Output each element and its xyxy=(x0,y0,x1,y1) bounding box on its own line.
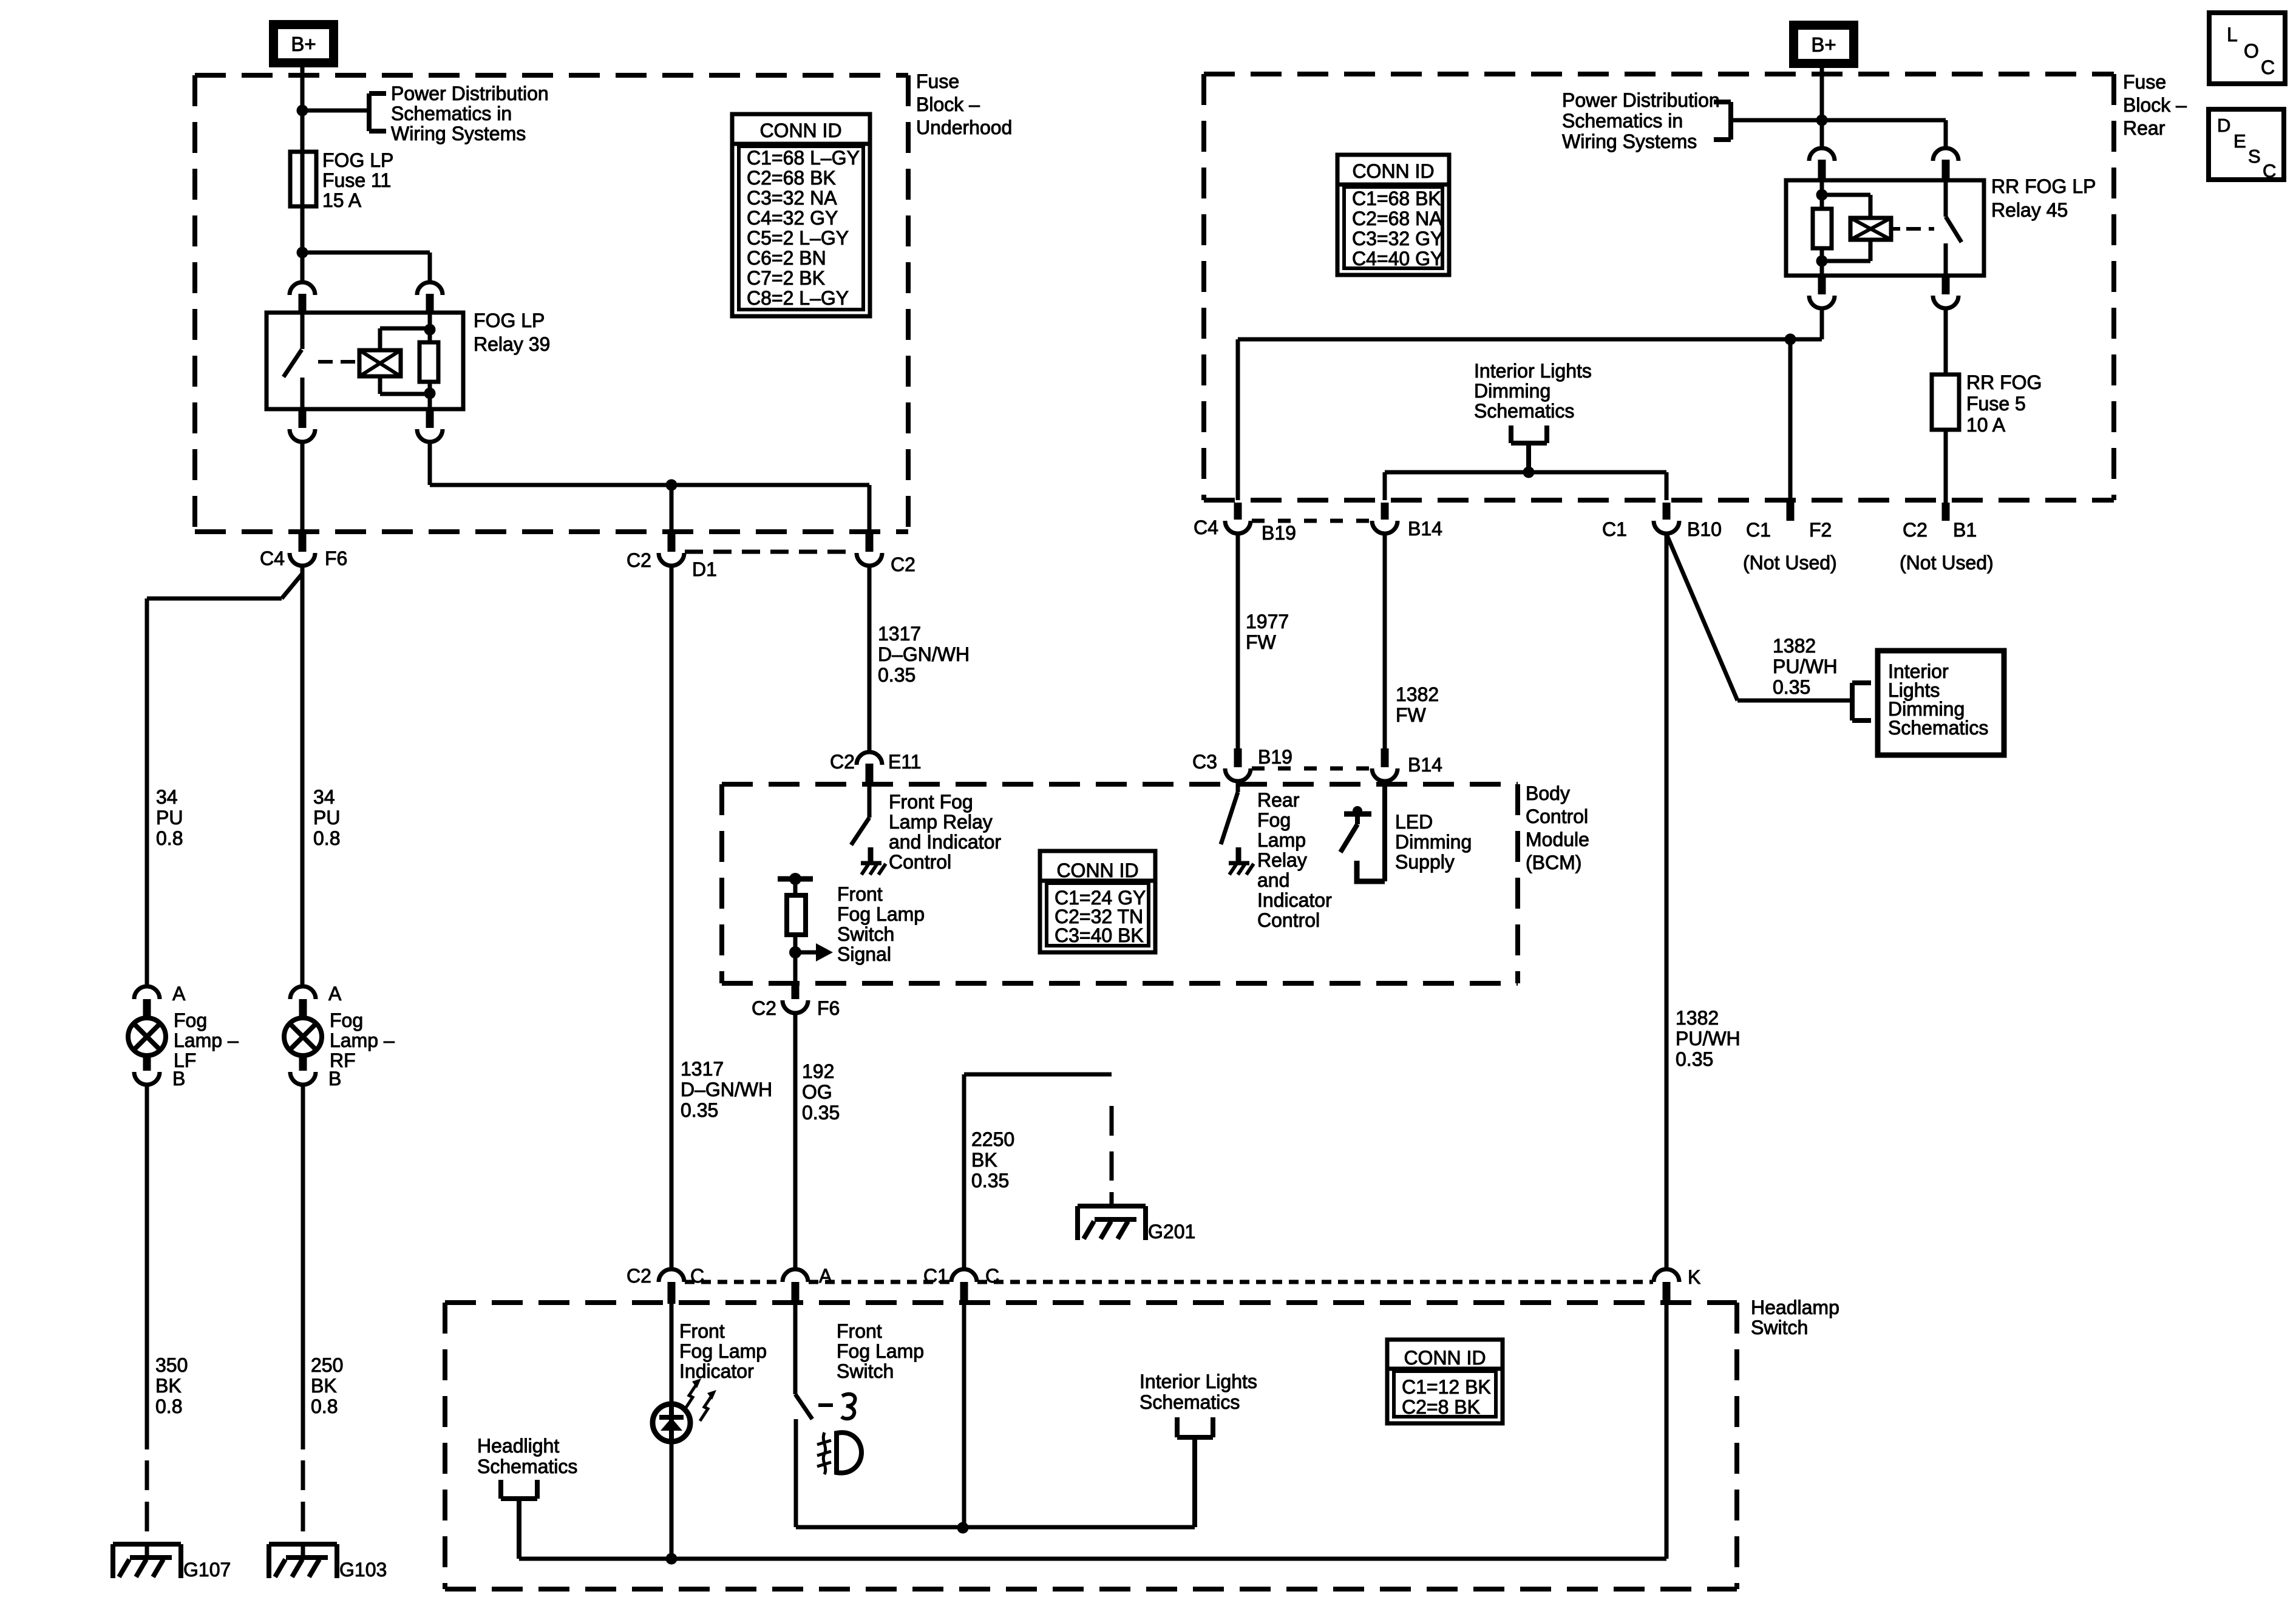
svg-text:C1=68 L–GY: C1=68 L–GY xyxy=(747,147,860,169)
svg-text:B19: B19 xyxy=(1262,522,1296,544)
svg-text:BK: BK xyxy=(971,1149,997,1171)
svg-text:C4: C4 xyxy=(1194,517,1218,538)
svg-text:Block –: Block – xyxy=(2123,94,2187,116)
svg-text:0.8: 0.8 xyxy=(156,827,183,849)
svg-text:(Not Used): (Not Used) xyxy=(1900,552,1994,574)
svg-text:FW: FW xyxy=(1396,704,1427,726)
svg-text:C3=32 NA: C3=32 NA xyxy=(747,187,837,209)
svg-text:Fog Lamp: Fog Lamp xyxy=(679,1340,767,1362)
svg-text:Front Fog: Front Fog xyxy=(889,791,973,813)
svg-text:Schematics: Schematics xyxy=(477,1456,577,1477)
svg-text:Interior Lights: Interior Lights xyxy=(1474,360,1592,382)
svg-text:Fog: Fog xyxy=(174,1009,207,1031)
svg-text:LF: LF xyxy=(174,1049,196,1071)
svg-text:Interior Lights: Interior Lights xyxy=(1140,1371,1257,1392)
svg-text:and: and xyxy=(1257,869,1289,891)
svg-text:CONN ID: CONN ID xyxy=(759,120,841,141)
svg-text:Relay 45: Relay 45 xyxy=(1991,199,2068,221)
svg-text:G201: G201 xyxy=(1148,1221,1195,1242)
svg-text:G103: G103 xyxy=(339,1559,387,1581)
svg-text:Switch: Switch xyxy=(1751,1317,1808,1338)
svg-text:10 A: 10 A xyxy=(1966,414,2006,436)
svg-text:192: 192 xyxy=(802,1060,834,1082)
svg-text:C1: C1 xyxy=(1602,518,1627,540)
svg-text:Schematics in: Schematics in xyxy=(391,103,512,124)
svg-text:C1=12 BK: C1=12 BK xyxy=(1402,1376,1491,1398)
svg-text:C2: C2 xyxy=(1903,519,1927,541)
svg-text:F2: F2 xyxy=(1809,519,1832,541)
svg-text:CONN ID: CONN ID xyxy=(1056,859,1138,881)
svg-text:15 A: 15 A xyxy=(322,189,362,211)
svg-text:C2=68 NA: C2=68 NA xyxy=(1352,208,1442,229)
svg-text:B10: B10 xyxy=(1687,518,1722,540)
svg-text:Fog Lamp: Fog Lamp xyxy=(837,903,925,925)
svg-text:C2: C2 xyxy=(627,549,651,571)
svg-text:Headlamp: Headlamp xyxy=(1751,1297,1839,1318)
svg-text:Signal: Signal xyxy=(837,943,891,965)
svg-text:B+: B+ xyxy=(291,33,316,55)
svg-text:A: A xyxy=(328,983,342,1005)
svg-text:1977: 1977 xyxy=(1246,611,1289,632)
svg-text:F6: F6 xyxy=(325,547,347,569)
svg-text:RR FOG: RR FOG xyxy=(1966,371,2042,393)
svg-text:F6: F6 xyxy=(817,997,840,1019)
svg-text:B14: B14 xyxy=(1408,754,1442,776)
svg-text:D–GN/WH: D–GN/WH xyxy=(681,1079,772,1100)
svg-text:L: L xyxy=(2227,24,2238,46)
svg-text:CONN ID: CONN ID xyxy=(1352,160,1434,182)
svg-text:350: 350 xyxy=(155,1354,188,1376)
svg-text:Headlight: Headlight xyxy=(477,1435,559,1457)
svg-text:PU: PU xyxy=(313,807,340,829)
svg-text:C: C xyxy=(2261,56,2275,78)
svg-text:Fog: Fog xyxy=(330,1009,363,1031)
svg-text:C3: C3 xyxy=(1192,751,1217,773)
svg-text:Module: Module xyxy=(1526,829,1589,850)
svg-text:Wiring Systems: Wiring Systems xyxy=(1562,131,1697,152)
svg-text:Body: Body xyxy=(1526,782,1570,804)
svg-text:LED: LED xyxy=(1395,811,1433,833)
svg-text:0.35: 0.35 xyxy=(971,1170,1009,1192)
svg-text:FOG LP: FOG LP xyxy=(322,149,393,171)
svg-text:D: D xyxy=(2217,115,2230,136)
svg-text:0.8: 0.8 xyxy=(155,1395,182,1417)
svg-text:FW: FW xyxy=(1246,631,1277,653)
svg-text:Power Distribution: Power Distribution xyxy=(1562,89,1720,111)
svg-text:B+: B+ xyxy=(1811,33,1836,56)
svg-text:1382: 1382 xyxy=(1773,635,1816,657)
svg-text:Fuse 11: Fuse 11 xyxy=(322,169,391,191)
svg-text:OG: OG xyxy=(802,1081,832,1103)
svg-text:O: O xyxy=(2244,40,2259,62)
svg-text:and Indicator: and Indicator xyxy=(889,831,1001,853)
svg-text:G107: G107 xyxy=(183,1559,231,1581)
svg-text:Fuse: Fuse xyxy=(916,70,959,92)
svg-text:Supply: Supply xyxy=(1395,851,1455,873)
svg-text:C2: C2 xyxy=(627,1265,651,1287)
svg-text:0.35: 0.35 xyxy=(1676,1048,1713,1070)
svg-text:C6=2 BN: C6=2 BN xyxy=(747,247,826,269)
svg-text:BK: BK xyxy=(311,1375,337,1397)
svg-text:Schematics: Schematics xyxy=(1140,1391,1240,1413)
svg-text:0.8: 0.8 xyxy=(313,827,340,849)
svg-text:E: E xyxy=(2233,131,2246,152)
svg-text:RR FOG LP: RR FOG LP xyxy=(1991,175,2096,197)
svg-text:B14: B14 xyxy=(1408,518,1442,540)
svg-text:1317: 1317 xyxy=(681,1058,724,1080)
svg-text:C1: C1 xyxy=(1746,519,1771,541)
svg-text:Dimming: Dimming xyxy=(1474,380,1550,402)
svg-text:Control: Control xyxy=(1526,805,1588,827)
svg-text:C: C xyxy=(2263,160,2276,181)
svg-text:C5=2 L–GY: C5=2 L–GY xyxy=(747,227,849,249)
svg-text:Underhood: Underhood xyxy=(916,117,1012,138)
svg-text:C2: C2 xyxy=(830,751,855,773)
svg-text:FOG LP: FOG LP xyxy=(474,310,545,331)
svg-text:0.35: 0.35 xyxy=(681,1099,718,1121)
svg-text:Fuse 5: Fuse 5 xyxy=(1966,393,2026,415)
svg-text:Schematics: Schematics xyxy=(1888,717,1988,739)
svg-text:PU/WH: PU/WH xyxy=(1773,656,1838,677)
svg-text:PU: PU xyxy=(156,807,183,829)
svg-text:Front: Front xyxy=(837,883,883,905)
svg-text:0.8: 0.8 xyxy=(311,1395,338,1417)
svg-text:Indicator: Indicator xyxy=(679,1360,754,1382)
svg-text:Relay 39: Relay 39 xyxy=(474,333,550,355)
svg-text:B1: B1 xyxy=(1953,519,1977,541)
svg-text:Control: Control xyxy=(889,851,951,873)
svg-text:K: K xyxy=(1688,1266,1700,1288)
svg-text:CONN ID: CONN ID xyxy=(1404,1347,1486,1369)
svg-text:C2: C2 xyxy=(752,997,776,1019)
svg-text:C2: C2 xyxy=(891,554,915,575)
svg-text:0.35: 0.35 xyxy=(802,1102,840,1124)
svg-text:1382: 1382 xyxy=(1396,683,1439,705)
svg-text:Lamp Relay: Lamp Relay xyxy=(889,811,993,833)
svg-text:Rear: Rear xyxy=(2123,117,2165,139)
svg-text:Block –: Block – xyxy=(916,93,980,115)
svg-text:1382: 1382 xyxy=(1676,1007,1719,1029)
svg-text:Fuse: Fuse xyxy=(2123,71,2166,93)
svg-text:Fog: Fog xyxy=(1257,809,1291,831)
svg-text:Switch: Switch xyxy=(837,1360,894,1382)
svg-text:C4=40 GY: C4=40 GY xyxy=(1352,248,1443,269)
svg-text:C7=2 BK: C7=2 BK xyxy=(747,267,825,289)
svg-text:Rear: Rear xyxy=(1257,789,1300,811)
svg-text:Control: Control xyxy=(1257,909,1320,931)
svg-text:1317: 1317 xyxy=(878,623,921,645)
svg-text:(BCM): (BCM) xyxy=(1526,852,1581,873)
svg-text:C4=32 GY: C4=32 GY xyxy=(747,207,838,229)
svg-text:C2=8 BK: C2=8 BK xyxy=(1402,1396,1480,1418)
svg-text:Schematics in: Schematics in xyxy=(1562,110,1683,132)
svg-text:Lamp: Lamp xyxy=(1257,829,1306,851)
svg-text:A: A xyxy=(172,983,186,1005)
svg-text:0.35: 0.35 xyxy=(1773,676,1810,698)
svg-text:S: S xyxy=(2248,146,2261,167)
svg-text:Front: Front xyxy=(837,1320,882,1342)
svg-text:34: 34 xyxy=(313,786,335,808)
svg-text:Switch: Switch xyxy=(837,923,894,945)
svg-text:Power Distribution: Power Distribution xyxy=(391,83,549,104)
svg-text:Indicator: Indicator xyxy=(1257,889,1332,911)
svg-text:(Not Used): (Not Used) xyxy=(1743,552,1837,574)
svg-text:C4: C4 xyxy=(260,547,285,569)
svg-text:C3=32 GY: C3=32 GY xyxy=(1352,228,1443,249)
svg-text:D1: D1 xyxy=(692,558,717,580)
svg-text:250: 250 xyxy=(311,1354,343,1376)
svg-text:Fog Lamp: Fog Lamp xyxy=(837,1340,924,1362)
svg-text:Schematics: Schematics xyxy=(1474,400,1574,422)
svg-text:C2=68 BK: C2=68 BK xyxy=(747,167,836,189)
svg-text:2250: 2250 xyxy=(971,1128,1014,1150)
svg-text:Relay: Relay xyxy=(1257,849,1307,871)
svg-text:E11: E11 xyxy=(888,751,922,773)
svg-text:Wiring Systems: Wiring Systems xyxy=(391,123,526,144)
svg-text:C3=40 BK: C3=40 BK xyxy=(1055,924,1144,946)
svg-text:34: 34 xyxy=(156,786,178,808)
svg-text:RF: RF xyxy=(330,1049,356,1071)
svg-text:Lamp –: Lamp – xyxy=(174,1029,239,1051)
svg-text:B19: B19 xyxy=(1258,746,1292,768)
svg-text:PU/WH: PU/WH xyxy=(1676,1028,1741,1049)
svg-text:Lamp –: Lamp – xyxy=(330,1029,395,1051)
svg-text:0.35: 0.35 xyxy=(878,664,915,686)
svg-text:C8=2 L–GY: C8=2 L–GY xyxy=(747,287,849,309)
svg-text:C1=68 BK: C1=68 BK xyxy=(1352,188,1441,209)
svg-text:Front: Front xyxy=(679,1320,725,1342)
svg-text:D–GN/WH: D–GN/WH xyxy=(878,643,970,665)
svg-text:BK: BK xyxy=(155,1375,182,1397)
svg-text:Dimming: Dimming xyxy=(1395,831,1472,853)
